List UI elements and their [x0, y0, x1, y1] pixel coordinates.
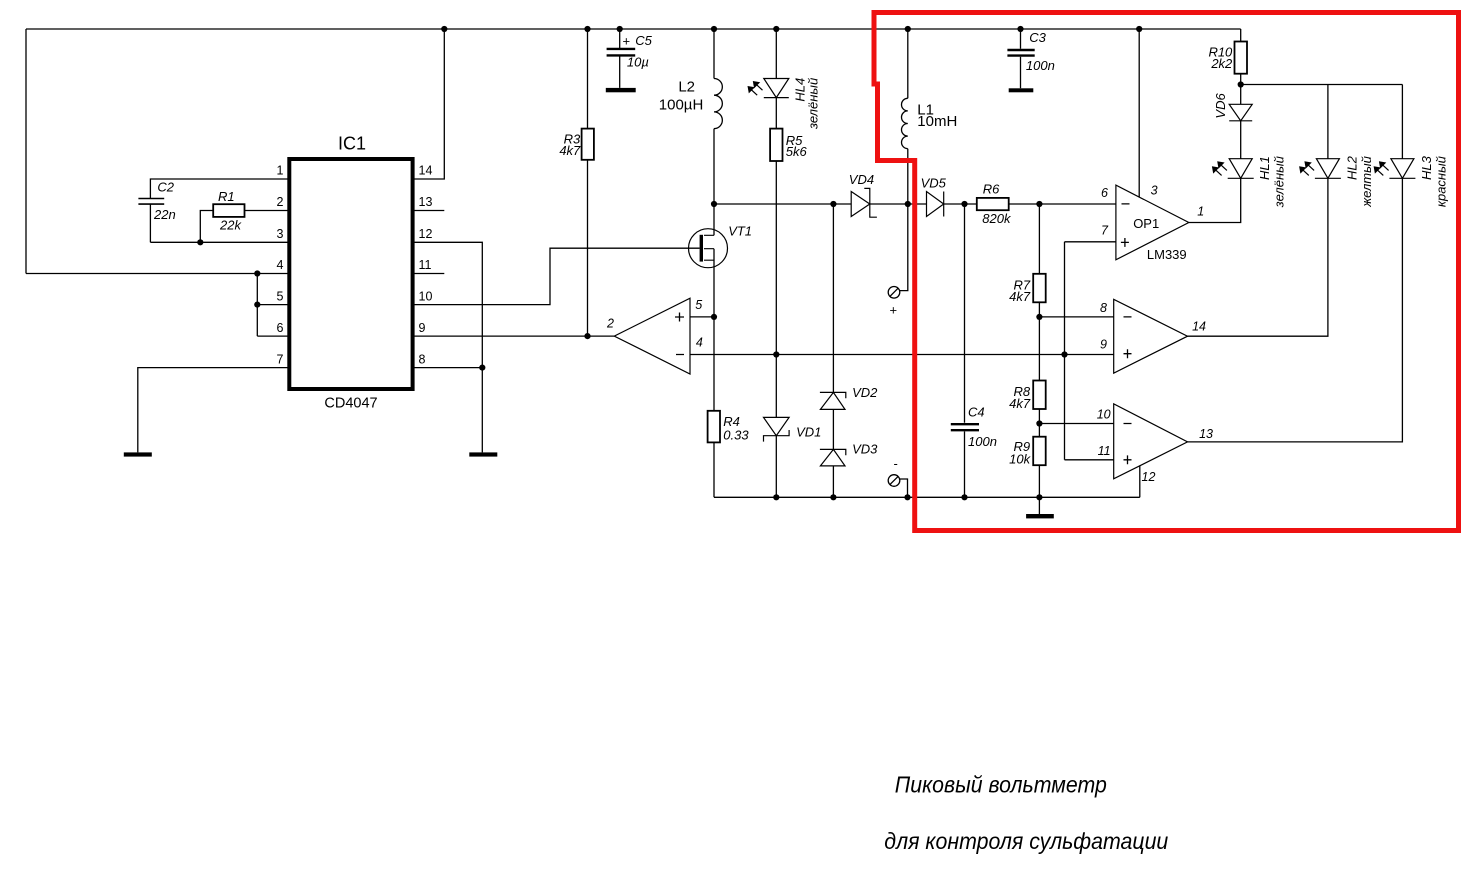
wire R10 bottom to VD6 — [1240, 74, 1242, 105]
svg-text:3: 3 — [1151, 184, 1158, 198]
junction pin5 tie — [254, 302, 260, 308]
svg-text:10: 10 — [1097, 408, 1111, 422]
op-amp comparator output2 left pointing — [614, 298, 690, 374]
junction R10 bottom LED feed — [1238, 81, 1244, 87]
resistor R5 — [770, 129, 782, 161]
IC U1 CD4047 body — [289, 159, 412, 389]
svg-text:C3: C3 — [1029, 30, 1046, 45]
wire R10 top corner — [1240, 29, 1242, 42]
op-amp comparator B output14 — [1114, 299, 1188, 373]
svg-text:C5: C5 — [635, 33, 652, 48]
resistor R4 — [708, 411, 720, 443]
wire minus terminal to bottom rail — [900, 479, 908, 497]
signs comparator C — [1124, 424, 1132, 465]
svg-text:CD4047: CD4047 — [324, 396, 377, 412]
resistor R6 — [977, 198, 1009, 210]
wire anode feed rail for HL2 HL3 — [1241, 85, 1403, 159]
svg-text:7: 7 — [277, 352, 284, 366]
wire pin6 stub — [257, 335, 290, 337]
wire reference net to plus inputs — [690, 354, 1114, 356]
wire R3 branch — [587, 29, 589, 336]
svg-text:LM339: LM339 — [1147, 247, 1187, 262]
wire C5 branch — [619, 29, 621, 88]
svg-text:4: 4 — [696, 336, 703, 350]
svg-text:100µH: 100µH — [659, 97, 704, 114]
resistor R3 — [582, 129, 594, 160]
junction divider tap pin8 — [1036, 314, 1042, 320]
junction bottom rail / C4 — [961, 494, 967, 500]
svg-text:1: 1 — [1197, 204, 1204, 218]
svg-text:C4: C4 — [968, 405, 985, 420]
LED HL3 — [1377, 159, 1415, 179]
svg-text:желтый: желтый — [1359, 156, 1374, 208]
ground at divider — [1026, 514, 1054, 518]
svg-text:8: 8 — [1100, 301, 1107, 315]
junction bottom rail / VD3 — [830, 494, 836, 500]
ground at C3 — [1009, 88, 1034, 92]
wire pin8 stub comparator B — [1039, 316, 1113, 318]
svg-text:5: 5 — [277, 289, 284, 303]
svg-text:OP1: OP1 — [1133, 216, 1159, 231]
junction top rail / pin3 riser — [1136, 26, 1142, 32]
junction bottom rail / divider — [1036, 494, 1042, 500]
svg-text:14: 14 — [1192, 319, 1206, 333]
svg-text:2: 2 — [277, 195, 284, 209]
transistor Q1 VT1 mosfet — [689, 229, 728, 268]
wire C2 bottom to pin3 line — [149, 204, 151, 242]
capacitor C5 polarized — [607, 49, 636, 56]
wire L2 bottom to VT1 drain — [713, 129, 715, 236]
wire R1 left lead — [200, 211, 213, 243]
wire left loop down to pin4 — [25, 29, 27, 274]
junction top rail / L2 — [711, 26, 717, 32]
wire pins 4-5-6 tie — [256, 274, 258, 337]
LED HL2 — [1303, 159, 1341, 179]
ground at C5 — [606, 88, 636, 92]
wire pin12 to ground rail — [1139, 465, 1141, 497]
junction reference net / pin7 riser — [1061, 351, 1067, 357]
svg-text:4k7: 4k7 — [1009, 396, 1031, 411]
junction R3 output2 — [584, 333, 590, 339]
svg-text:R1: R1 — [218, 189, 235, 204]
wire L2 top lead — [713, 29, 715, 79]
pin numbers IC1 right — [419, 164, 433, 367]
pin labels comparator C — [1097, 408, 1213, 484]
wire bottom common rail — [714, 496, 1140, 498]
zener diode VD3 — [820, 449, 846, 466]
junction bottom rail / VD1 — [773, 494, 779, 500]
wire ground stub below rail — [1038, 497, 1040, 514]
red marker outline — [874, 13, 1459, 531]
wire output1 to HL1 — [1189, 178, 1241, 222]
svg-text:+: + — [890, 303, 898, 318]
LED HL4 — [751, 79, 789, 98]
resistor R7 — [1033, 274, 1046, 303]
svg-text:VD2: VD2 — [852, 385, 878, 400]
svg-text:11: 11 — [419, 258, 432, 272]
svg-text:820k: 820k — [982, 211, 1012, 226]
junction C2 R1 pin3 — [197, 239, 203, 245]
signs comparator output2 — [675, 313, 684, 355]
wire top supply rail — [26, 28, 1241, 30]
svg-text:10mH: 10mH — [917, 113, 957, 130]
wire VD6 to HL1 — [1240, 121, 1242, 159]
inductor L1 — [901, 98, 907, 148]
capacitor C4 — [951, 424, 979, 430]
wire pin9 to comparator output 2 — [412, 335, 614, 337]
wire HL2 to output 14 — [1188, 178, 1328, 336]
wire VD2 VD3 branch — [832, 204, 834, 497]
junction drain node / L2 — [711, 201, 717, 207]
pin numbers IC1 left — [277, 164, 284, 367]
wire pin5 stub — [257, 304, 290, 306]
wire pin2 to R1 — [245, 210, 291, 212]
wire pin3 line — [150, 241, 290, 243]
svg-text:4k7: 4k7 — [559, 143, 581, 158]
svg-text:Пиковый вольтметр: Пиковый вольтметр — [895, 772, 1107, 798]
svg-text:100n: 100n — [1026, 58, 1055, 73]
svg-text:13: 13 — [419, 195, 433, 209]
svg-text:22k: 22k — [219, 217, 242, 232]
svg-text:VD3: VD3 — [852, 441, 878, 456]
ground at pin8 — [469, 452, 497, 456]
svg-text:+: + — [623, 34, 631, 49]
svg-text:9: 9 — [419, 321, 426, 335]
wire plus terminal riser — [900, 204, 908, 291]
svg-text:7: 7 — [1101, 224, 1109, 238]
junction reference net / R5 VD1 — [773, 351, 779, 357]
op-amp OP1 comparator A — [1116, 185, 1189, 260]
resistor R8 — [1033, 381, 1046, 410]
svg-text:VD5: VD5 — [921, 175, 947, 190]
svg-text:HL3: HL3 — [1419, 155, 1434, 180]
wire pin4 line — [26, 273, 290, 275]
wire HL4 to R5 — [775, 98, 777, 129]
svg-text:10k: 10k — [1009, 452, 1031, 467]
wire R5 to VD1 — [775, 161, 777, 417]
wire pin11 stub — [412, 273, 444, 275]
pin labels comparator B — [1100, 301, 1206, 352]
svg-text:VD1: VD1 — [796, 425, 821, 440]
svg-text:L2: L2 — [678, 79, 695, 96]
junction top rail / L1 — [905, 26, 911, 32]
svg-text:зелёный: зелёный — [1271, 156, 1286, 208]
svg-text:11: 11 — [1098, 444, 1111, 458]
svg-text:-: - — [894, 456, 898, 471]
svg-text:VT1: VT1 — [728, 223, 752, 238]
svg-text:для контроля сульфатации: для контроля сульфатации — [884, 828, 1168, 854]
junction pin4 tie — [254, 270, 260, 276]
svg-text:100n: 100n — [968, 434, 997, 449]
svg-text:HL1: HL1 — [1257, 156, 1272, 180]
capacitor C2 — [138, 199, 164, 205]
svg-text:VD6: VD6 — [1213, 93, 1228, 119]
wire C3 leads — [1020, 29, 1022, 88]
svg-text:0.33: 0.33 — [723, 428, 749, 443]
LED HL1 — [1216, 159, 1254, 179]
wire pin1 to C2 — [150, 179, 290, 198]
terminal plus clamp — [888, 287, 900, 299]
wire C4 branch — [964, 204, 966, 497]
svg-text:1: 1 — [277, 164, 284, 178]
wire VT1 source down through R4 to bottom rail — [713, 249, 715, 498]
svg-text:10: 10 — [419, 289, 433, 303]
wire divider chain R7 R8 R9 — [1038, 204, 1040, 497]
resistor R9 — [1033, 437, 1046, 466]
svg-text:зелёный: зелёный — [805, 78, 820, 130]
wire pin7 riser tie — [1064, 242, 1066, 460]
wire pin8 to ground — [481, 368, 483, 453]
junction top rail / HL4 — [773, 26, 779, 32]
svg-text:8: 8 — [419, 352, 426, 366]
pin labels comparator output2 — [606, 298, 703, 350]
svg-text:10µ: 10µ — [627, 54, 649, 69]
svg-text:VD4: VD4 — [849, 172, 874, 187]
diode VD6 — [1229, 104, 1252, 121]
junction top rail / R3 — [584, 26, 590, 32]
wire pin7 to ground — [138, 368, 290, 453]
wire pin10 to VT1 gate — [412, 248, 700, 304]
op-amp comparator C output13 — [1114, 404, 1188, 479]
wire pin13 stub — [412, 210, 444, 212]
ground at pin7 — [124, 452, 152, 456]
wire comparator A plus stub — [690, 316, 714, 318]
junction top rail / C5 — [617, 26, 623, 32]
junction L1 / plus terminal — [905, 201, 911, 207]
wire pin7 stub — [1065, 241, 1116, 243]
zener diode VD1 — [764, 417, 790, 441]
svg-text:9: 9 — [1100, 338, 1107, 352]
svg-text:5k6: 5k6 — [786, 144, 808, 159]
wire pin14 riser — [412, 29, 444, 179]
terminal minus clamp — [888, 475, 900, 487]
inductor L2 — [714, 79, 722, 129]
svg-text:2k2: 2k2 — [1210, 56, 1233, 71]
junction R7 top — [1036, 201, 1042, 207]
junction VT1 source / plus input — [711, 314, 717, 320]
svg-text:14: 14 — [419, 164, 433, 178]
svg-text:6: 6 — [1101, 186, 1108, 200]
svg-text:IC1: IC1 — [338, 134, 366, 154]
zener diode VD2 — [820, 392, 846, 409]
zener diode VD4 — [851, 188, 877, 217]
svg-text:22n: 22n — [153, 207, 176, 222]
wire VD1 to bottom rail — [775, 436, 777, 498]
junction bottom rail / minus terminal — [904, 494, 910, 500]
svg-text:3: 3 — [277, 227, 284, 241]
svg-text:4: 4 — [277, 258, 284, 272]
junction top rail / pin14 riser — [441, 26, 447, 32]
pin labels OP1 comparator A — [1101, 184, 1204, 238]
wire pin8 stub — [412, 367, 482, 369]
svg-text:6: 6 — [277, 321, 284, 335]
junction C4 top — [961, 201, 967, 207]
diode VD5 — [927, 192, 944, 217]
svg-text:R6: R6 — [983, 182, 1000, 197]
junction divider tap pin10 — [1036, 420, 1042, 426]
svg-text:12: 12 — [419, 227, 433, 241]
wire L1 branch — [907, 29, 909, 204]
wire HL4 branch top — [775, 29, 777, 79]
wire measured node horizontal — [714, 203, 1116, 205]
svg-text:красный: красный — [1434, 156, 1449, 207]
transistor VT1 gate bar — [700, 235, 703, 262]
svg-text:12: 12 — [1142, 470, 1156, 484]
svg-text:4k7: 4k7 — [1009, 289, 1031, 304]
capacitor C3 — [1007, 50, 1034, 56]
svg-text:2: 2 — [606, 317, 614, 331]
resistor R1 — [213, 204, 244, 217]
junction drain node / VD2 branch — [830, 201, 836, 207]
svg-text:HL2: HL2 — [1345, 155, 1360, 180]
wire pin10 stub comparator C — [1039, 423, 1113, 425]
junction top rail / C3 — [1017, 26, 1023, 32]
svg-text:C2: C2 — [157, 179, 174, 194]
svg-text:5: 5 — [695, 298, 702, 312]
svg-text:13: 13 — [1199, 427, 1213, 441]
junction pin8 pin12 ground — [479, 365, 485, 371]
wire pin12 to pin8 — [412, 242, 482, 367]
signs comparator A — [1121, 204, 1130, 247]
resistor R10 — [1235, 42, 1248, 74]
signs comparator B — [1124, 317, 1132, 358]
wire pin3 power riser — [1138, 29, 1140, 197]
wire HL3 to output 13 — [1188, 178, 1403, 442]
wire pin11 stub — [1065, 459, 1114, 461]
